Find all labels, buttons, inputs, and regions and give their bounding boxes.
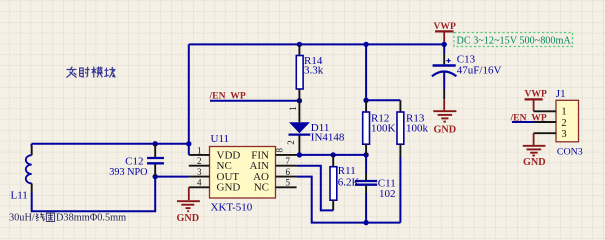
- wire: top rail: [189, 43, 444, 45]
- svg-text:1: 1: [197, 145, 202, 155]
- wire: left riser from top rail to pin1: [188, 44, 190, 154]
- wire: L11/C12 top row: [32, 143, 189, 145]
- svg-text:2: 2: [197, 156, 202, 166]
- pin 2: [189, 165, 210, 167]
- ground under pin 4: [177, 187, 200, 224]
- svg-text:5: 5: [286, 178, 291, 188]
- wire: pin8 row: [297, 154, 367, 156]
- capacitor C12: [109, 144, 164, 178]
- svg-text:R11: R11: [338, 165, 356, 177]
- diode D11 IN4148: [286, 101, 345, 155]
- svg-text:3.3k: 3.3k: [304, 65, 324, 77]
- svg-text:GND: GND: [177, 213, 200, 224]
- inductor L11 value text 30uH/线圈D38mmΦ0.5mm: [9, 213, 126, 224]
- node junction at R14 bottom / D11 top: [297, 98, 302, 103]
- wire: /EN WP stub at J1: [512, 121, 535, 123]
- node junction top rail / R12 riser: [363, 42, 368, 47]
- svg-text:47uF/16V: 47uF/16V: [457, 64, 502, 76]
- wire: /EN WP net: [210, 100, 299, 102]
- svg-text:393 NPO: 393 NPO: [109, 167, 147, 178]
- ground under J1 pin3: [523, 133, 546, 168]
- svg-text:/EN WP: /EN WP: [209, 90, 246, 101]
- svg-text:30uH/: 30uH/: [9, 213, 35, 224]
- power port VWP (J1): [525, 88, 548, 111]
- svg-text:VWP: VWP: [525, 88, 548, 99]
- wire: L11 bottom to rail: [32, 177, 156, 212]
- svg-text:C12: C12: [125, 156, 143, 168]
- node junction C11 bottom / rail: [363, 220, 368, 225]
- wire: R13 bottom to rail: [399, 157, 401, 223]
- svg-text:4: 4: [197, 178, 202, 188]
- svg-text:L11: L11: [11, 190, 28, 202]
- svg-text:6.2K: 6.2K: [338, 177, 360, 189]
- resistor R13: [397, 100, 429, 157]
- svg-text:100K: 100K: [371, 122, 396, 134]
- resistor R14: [296, 44, 323, 100]
- resistor R11: [330, 155, 360, 211]
- svg-text:IN4148: IN4148: [311, 132, 345, 144]
- svg-text:GND: GND: [217, 182, 241, 194]
- svg-text:100k: 100k: [406, 122, 429, 134]
- capacitor C13: [432, 44, 502, 99]
- node junction R12 bottom: [363, 152, 368, 157]
- pin 1: [189, 154, 210, 156]
- ground under C13: [433, 99, 456, 135]
- pin 7: [276, 165, 297, 167]
- wire: pin6 route to bottom rail: [297, 177, 401, 223]
- svg-text:GND: GND: [434, 125, 457, 136]
- power port VWP (top): [434, 21, 457, 44]
- capacitor C11: [355, 155, 396, 223]
- inductor L11: [11, 144, 32, 202]
- wire: pin3 to chip: [155, 176, 189, 178]
- node junction D11 / pin8: [297, 152, 302, 157]
- pin 2 wire: [534, 121, 556, 123]
- svg-text:2: 2: [286, 140, 296, 145]
- node junction R11 top: [331, 152, 336, 157]
- node junction at riser/top row: [186, 141, 191, 146]
- wire: cross to R13: [366, 99, 400, 101]
- pin 5: [276, 186, 297, 188]
- pin 6: [276, 176, 297, 178]
- svg-text:XKT-510: XKT-510: [211, 202, 253, 214]
- title text 发射模块:: [67, 67, 115, 77]
- pin 4: [189, 186, 210, 188]
- svg-text:7: 7: [286, 156, 291, 166]
- svg-text:J1: J1: [556, 88, 566, 100]
- pin 3 wire: [534, 132, 556, 134]
- node junction at C12 bottom / pin3: [153, 174, 158, 179]
- wire: riser to R12/R13: [365, 44, 367, 100]
- svg-text:3: 3: [197, 167, 202, 177]
- wire: pin7 route to R11 bottom: [297, 166, 334, 211]
- node junction top rail / C13: [442, 42, 447, 47]
- connector J1 CON3: [534, 88, 583, 158]
- svg-text:3: 3: [561, 129, 566, 140]
- svg-text:DC 3~12~15V 500~800mA: DC 3~12~15V 500~800mA: [457, 35, 572, 46]
- svg-text:U11: U11: [211, 133, 230, 145]
- pin 3: [189, 176, 210, 178]
- IC U11 XKT-510: [189, 133, 297, 214]
- svg-text:8: 8: [275, 148, 285, 153]
- svg-text:CON3: CON3: [557, 146, 583, 157]
- svg-text:1: 1: [288, 106, 298, 111]
- svg-text:NC: NC: [254, 182, 269, 194]
- svg-text:1: 1: [561, 107, 566, 118]
- svg-text:2: 2: [561, 118, 566, 129]
- note box DC 3~12~15V 500~800mA: [454, 33, 573, 47]
- node junction at C12 top: [153, 141, 158, 146]
- svg-text:GND: GND: [523, 157, 546, 168]
- svg-text:102: 102: [379, 188, 396, 200]
- pin 1 wire: [534, 110, 556, 112]
- node junction top rail / R14: [297, 42, 302, 47]
- svg-text:D38mmΦ0.5mm: D38mmΦ0.5mm: [56, 213, 126, 224]
- title colon: [112, 69, 114, 77]
- pin 8: [276, 154, 297, 156]
- node junction R12/R13 cross: [363, 98, 368, 103]
- svg-text:6: 6: [286, 167, 291, 177]
- resistor R12: [363, 100, 396, 155]
